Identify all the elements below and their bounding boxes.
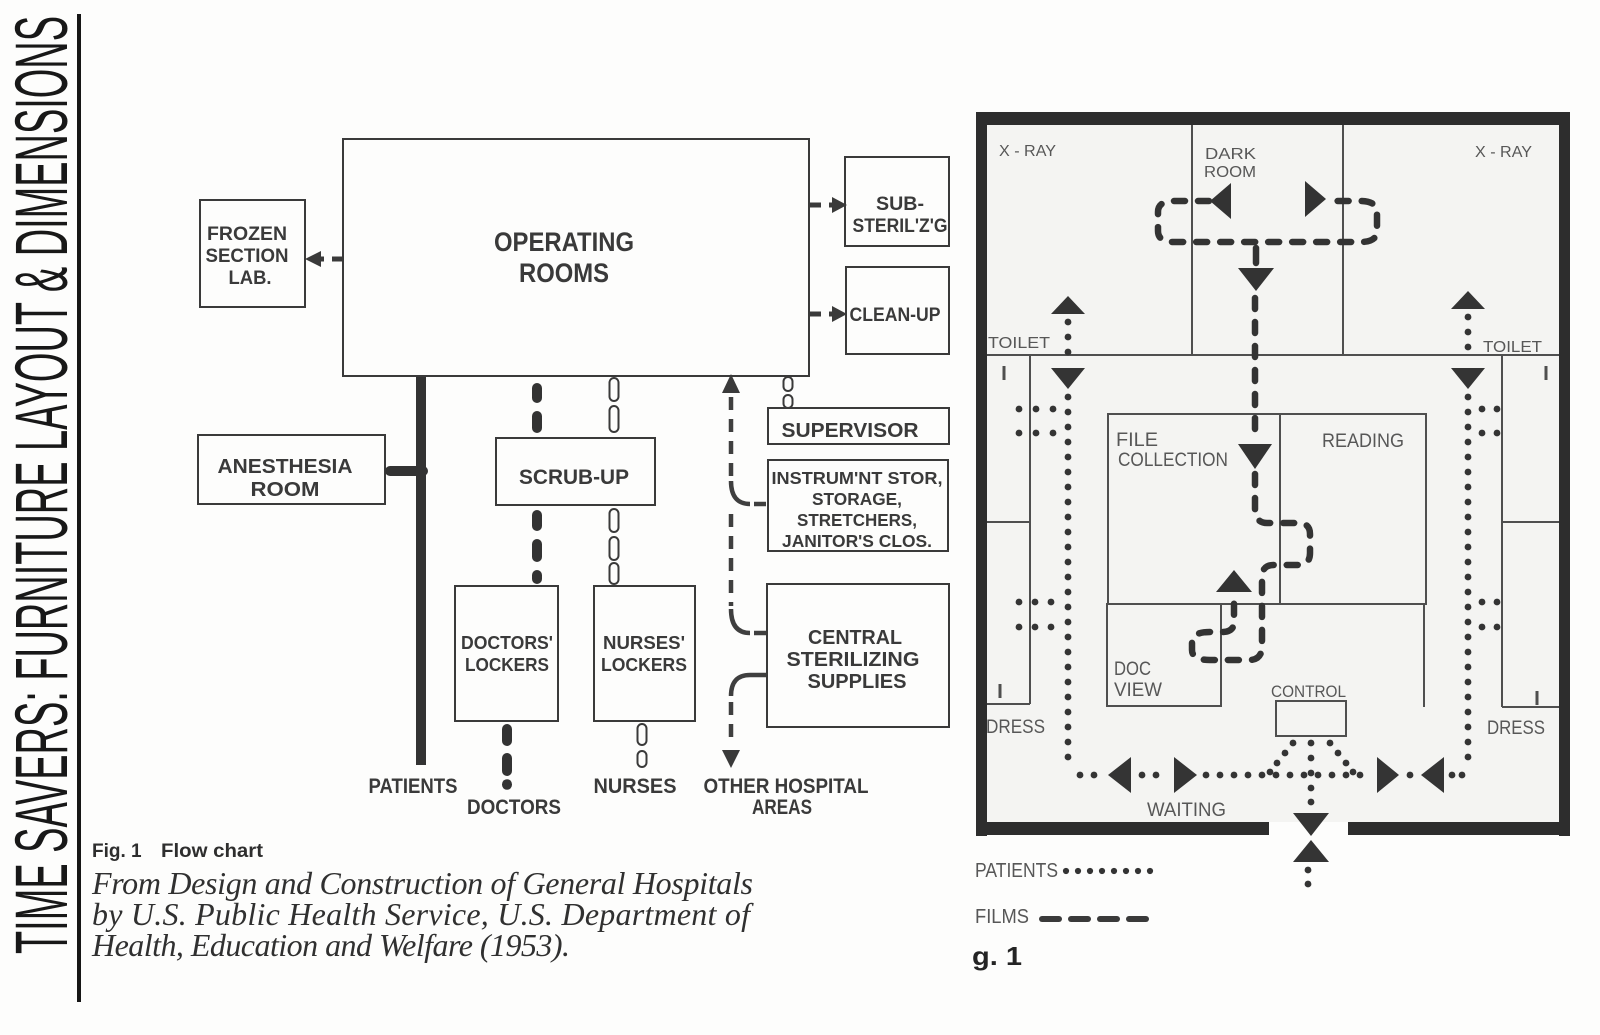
svg-text:LOCKERS: LOCKERS	[601, 655, 687, 675]
dashed arrow: OR to sub-sterilizing	[810, 203, 832, 208]
box: central sterilizing supplies	[767, 584, 949, 727]
waiting arrows center-left pair	[1139, 772, 1146, 779]
door tick: left toilet	[1003, 366, 1006, 380]
svg-text:SUPERVISOR: SUPERVISOR	[782, 420, 920, 442]
svg-text:g. 1: g. 1	[972, 941, 1022, 971]
svg-text:TOILET: TOILET	[1483, 339, 1542, 356]
wall: left dress bottom	[987, 703, 1030, 705]
svg-text:CENTRAL: CENTRAL	[808, 627, 902, 649]
door tick: right dress	[1536, 691, 1539, 705]
patients dotted branch left toilet	[1016, 406, 1023, 413]
svg-text:DOC: DOC	[1114, 659, 1151, 680]
other-hospital-areas dashed vertical upper	[729, 397, 734, 479]
wall: left toilet/dress divider	[1029, 355, 1031, 704]
svg-text:DOCTORS: DOCTORS	[467, 796, 561, 819]
box: anesthesia room	[198, 435, 385, 504]
doctors thick dashed line (OR to scrub-up)	[532, 388, 542, 398]
wall: dark room right	[1342, 125, 1344, 355]
box: nurses lockers	[594, 586, 695, 721]
waiting arrows right pair	[1377, 757, 1399, 793]
svg-text:NURSES': NURSES'	[603, 633, 685, 653]
door tick: right toilet	[1545, 366, 1548, 380]
svg-text:FILMS: FILMS	[975, 906, 1029, 928]
other-hospital-areas elbow to instrument storage	[731, 481, 750, 504]
room: doc view	[1107, 604, 1221, 706]
svg-text:DARK: DARK	[1205, 146, 1256, 163]
box: supervisor	[768, 408, 949, 444]
svg-text:SUPPLIES: SUPPLIES	[808, 671, 907, 693]
wall: file/reading divider	[1279, 414, 1281, 604]
entrance arrow up (door gap)	[1293, 840, 1329, 862]
room: file collection / reading	[1108, 414, 1426, 604]
other-hospital-areas elbow from central sterilizing down	[731, 675, 766, 696]
svg-text:LAB.: LAB.	[229, 268, 272, 289]
svg-text:LOCKERS: LOCKERS	[465, 655, 549, 675]
other-hospital-areas elbow to central sterilizing	[731, 609, 750, 633]
svg-text:DRESS: DRESS	[1487, 718, 1545, 739]
svg-text:ROOM: ROOM	[1204, 164, 1256, 181]
patients thick solid line	[416, 377, 426, 765]
wall: plan outer left	[976, 112, 987, 836]
nurses outlined dashed line (scrub-up to lockers)	[610, 509, 619, 532]
wall: reading right lower	[1423, 604, 1425, 707]
films arrowhead up (doc view hook)	[1216, 570, 1252, 592]
svg-text:STORAGE,: STORAGE,	[812, 489, 902, 509]
wall: right toilet bottom	[1502, 521, 1559, 523]
svg-text:READING: READING	[1322, 431, 1404, 452]
svg-text:WAITING: WAITING	[1147, 800, 1226, 821]
patients dotted branch left dress	[1016, 599, 1023, 606]
wall: hall horizontal	[987, 354, 1559, 356]
svg-text:SCRUB-UP: SCRUB-UP	[519, 466, 629, 489]
films dashed S-curve through reading divider into doc view	[1192, 474, 1310, 660]
wall: plan outer top	[976, 112, 1570, 125]
patients dotted branch right toilet	[1479, 406, 1486, 413]
box: frozen section lab	[200, 200, 305, 307]
anesthesia connector stub	[390, 466, 423, 476]
patients dotted vertical right	[1465, 394, 1472, 401]
svg-text:AREAS: AREAS	[752, 796, 812, 819]
patients dotted fan below control: left diagonal	[1290, 740, 1297, 747]
box: instrument storage	[768, 460, 948, 551]
films arrowhead left (dark room)	[1210, 183, 1231, 219]
svg-text:CLEAN-UP: CLEAN-UP	[850, 305, 941, 326]
supervisor outlined dashed line (OR to supervisor)	[784, 377, 793, 391]
svg-text:OPERATING: OPERATING	[494, 227, 634, 257]
box: scrub-up	[496, 438, 655, 505]
box: sub-sterilizing	[845, 157, 949, 246]
films stem below loop	[1253, 248, 1260, 263]
svg-text:SUB-: SUB-	[876, 194, 924, 215]
other-hospital-areas dashed vertical middle	[729, 514, 734, 606]
svg-text:FROZEN: FROZEN	[207, 224, 287, 245]
entrance arrow down (door gap)	[1293, 813, 1329, 836]
patients dotted branch right dress	[1479, 599, 1486, 606]
svg-text:OTHER HOSPITAL: OTHER HOSPITAL	[704, 775, 869, 798]
svg-text:ROOMS: ROOMS	[519, 258, 609, 288]
svg-text:PATIENTS: PATIENTS	[975, 860, 1058, 882]
svg-text:ANESTHESIA: ANESTHESIA	[218, 456, 353, 478]
svg-text:TIME SAVERS: FURNITURE LAYOUT: TIME SAVERS: FURNITURE LAYOUT & DIMENSIO…	[0, 16, 83, 954]
svg-text:NURSES: NURSES	[594, 775, 677, 798]
patients dotted fan below control: center vertical	[1308, 740, 1315, 747]
svg-text:TOILET: TOILET	[988, 335, 1050, 352]
doctors thick dashed line (scrub-up to lockers)	[532, 515, 542, 526]
svg-text:JANITOR'S CLOS.: JANITOR'S CLOS.	[782, 531, 932, 551]
films arrowhead right (dark room)	[1305, 181, 1326, 217]
box: operating rooms	[343, 139, 809, 376]
patients arrow down (right, below hall wall)	[1451, 368, 1485, 389]
svg-text:FILE: FILE	[1116, 430, 1158, 451]
door tick: left dress	[999, 684, 1002, 698]
box: clean-up	[846, 267, 949, 354]
svg-text:Flow chart: Flow chart	[161, 841, 264, 862]
legend dashed sample (films)	[1039, 916, 1062, 922]
svg-text:X - RAY: X - RAY	[1475, 144, 1532, 161]
films arrowhead down (below dark room)	[1238, 268, 1274, 291]
svg-text:PATIENTS: PATIENTS	[369, 775, 458, 798]
wall: plan outer right	[1559, 112, 1570, 836]
films dashed loop at dark room	[1158, 201, 1377, 242]
patients dotted waiting line	[1077, 772, 1084, 779]
vertical rule beside header	[77, 14, 81, 1002]
dashed arrow: OR to frozen section lab	[317, 257, 343, 262]
wall: plan bottom left segment	[976, 822, 1269, 835]
svg-text:SECTION: SECTION	[206, 246, 289, 267]
patients dotted vertical left	[1065, 394, 1072, 401]
wall: right toilet/dress divider	[1501, 355, 1503, 707]
patients dotted fan below control: right diagonal	[1327, 740, 1334, 747]
films arrowhead down (file collection)	[1238, 444, 1272, 469]
svg-text:Health, Education and Welfare: Health, Education and Welfare (1953).	[91, 927, 570, 963]
svg-text:VIEW: VIEW	[1114, 680, 1162, 701]
doctors thick dashed line (below lockers)	[502, 729, 512, 741]
patients arrow down (left, below hall wall)	[1051, 368, 1085, 389]
svg-text:CONTROL: CONTROL	[1271, 682, 1346, 701]
box: doctors lockers	[455, 586, 558, 721]
svg-text:COLLECTION: COLLECTION	[1118, 450, 1228, 471]
svg-text:STERIL'Z'G: STERIL'Z'G	[853, 216, 948, 237]
svg-text:STRETCHERS,: STRETCHERS,	[797, 510, 917, 530]
legend dotted sample (patients)	[1063, 868, 1069, 874]
svg-text:DOCTORS': DOCTORS'	[461, 633, 553, 653]
svg-text:DRESS: DRESS	[986, 717, 1045, 738]
scan tint of plan paper	[987, 125, 1559, 822]
room: control booth	[1276, 701, 1346, 736]
svg-text:X - RAY: X - RAY	[999, 143, 1056, 160]
nurses outlined dashed line (below lockers)	[638, 724, 647, 745]
svg-text:ROOM: ROOM	[251, 479, 320, 501]
films dashed vertical to file collection	[1252, 298, 1259, 440]
svg-text:INSTRUM'NT STOR,: INSTRUM'NT STOR,	[772, 468, 943, 488]
nurses outlined dashed line (OR to scrub-up)	[610, 378, 619, 401]
patients arrow up (right toilet)	[1451, 291, 1485, 309]
other-hospital-areas dashed line: arrow up into OR	[722, 374, 740, 393]
wall: dark room left	[1191, 125, 1193, 355]
wall: right dress bottom	[1502, 706, 1559, 708]
svg-text:Fig. 1: Fig. 1	[92, 841, 142, 862]
svg-text:STERILIZING: STERILIZING	[787, 649, 920, 671]
patients arrow up (left toilet)	[1051, 296, 1085, 314]
wall: plan bottom right segment	[1348, 822, 1570, 835]
dashed arrow: OR to clean-up	[810, 312, 832, 317]
wall: left toilet bottom	[987, 521, 1030, 523]
